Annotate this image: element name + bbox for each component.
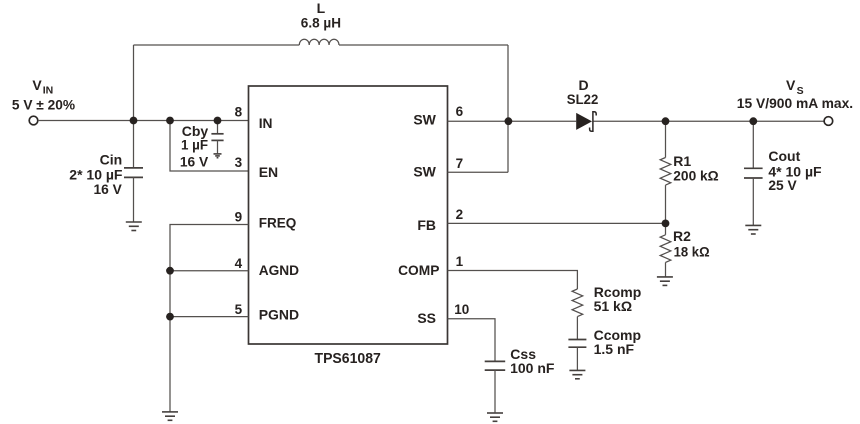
svg-text:7: 7 (456, 156, 464, 171)
ground (Cout) (745, 225, 761, 234)
wire riser to top rail (133, 45, 135, 121)
svg-text:EN: EN (259, 164, 278, 180)
svg-text:5 V ± 20%: 5 V ± 20% (12, 97, 76, 113)
svg-text:2: 2 (456, 207, 464, 222)
wire FB (448, 222, 666, 224)
resistor Rcomp (572, 289, 583, 340)
svg-text:10: 10 (454, 302, 469, 317)
wire diode to VS (594, 120, 825, 122)
label VS (786, 77, 804, 97)
svg-text:3: 3 (235, 155, 243, 170)
resistor R1 (660, 121, 671, 223)
label VIN (32, 77, 53, 97)
svg-text:16 V: 16 V (94, 181, 123, 197)
node PGND junction (166, 313, 174, 321)
svg-text:8: 8 (235, 105, 243, 120)
svg-text:15 V/900 mA max.: 15 V/900 mA max. (737, 95, 853, 111)
wire VIN to IC pin IN (38, 120, 249, 122)
wire FREQ (170, 225, 249, 412)
svg-text:9: 9 (235, 209, 243, 224)
capacitor Cout (744, 121, 763, 225)
node AGND junction (166, 267, 174, 275)
svg-text:SW: SW (413, 111, 436, 127)
svg-text:SW: SW (413, 164, 436, 180)
svg-text:51 kΩ: 51 kΩ (594, 298, 632, 314)
capacitor Cby (211, 121, 223, 154)
svg-text:TPS61087: TPS61087 (315, 350, 381, 367)
svg-text:R2: R2 (673, 228, 691, 244)
wire SW6 stub (448, 120, 509, 122)
node FB junction (662, 220, 670, 228)
svg-text:1: 1 (456, 254, 464, 269)
terminal VIN (29, 116, 38, 125)
ground (R2) (657, 277, 673, 286)
node SW junction (505, 117, 513, 125)
svg-text:16 V: 16 V (180, 153, 209, 169)
svg-text:1 µF: 1 µF (181, 137, 208, 153)
capacitor Cin (124, 121, 143, 223)
wire SW7 stub (448, 171, 509, 173)
wire PGND (170, 316, 249, 318)
ground (AGND/PGND) (162, 412, 178, 420)
wire EN jog (170, 121, 249, 172)
wire top rail right (339, 44, 508, 46)
ground (Ccomp) (569, 370, 585, 378)
node Cout junction (749, 117, 757, 125)
svg-text:18 kΩ: 18 kΩ (674, 244, 710, 260)
node Cby junction (214, 117, 222, 125)
ground (Css) (487, 413, 503, 421)
IC U1 TPS61087 (249, 86, 448, 344)
svg-text:25 V: 25 V (768, 177, 797, 193)
svg-text:6.8 µH: 6.8 µH (301, 14, 341, 30)
svg-text:V: V (786, 77, 796, 93)
wire AGND (170, 270, 249, 272)
svg-text:V: V (32, 77, 42, 93)
node R1 junction (662, 117, 670, 125)
wire SW to diode (508, 120, 576, 122)
wire top rail left (134, 44, 300, 46)
svg-text:IN: IN (43, 85, 54, 97)
svg-text:1.5 nF: 1.5 nF (594, 341, 635, 357)
terminal VS (824, 117, 833, 126)
svg-text:PGND: PGND (259, 307, 299, 323)
svg-text:AGND: AGND (259, 262, 299, 278)
node input junction (130, 117, 138, 125)
capacitor Css (485, 361, 506, 412)
svg-text:4: 4 (235, 256, 243, 271)
diode D SL22 (576, 112, 596, 132)
node EN junction (166, 117, 174, 125)
svg-text:FB: FB (417, 217, 436, 233)
wire COMP (448, 271, 578, 290)
ground (Cin) (126, 222, 142, 231)
svg-text:100 nF: 100 nF (510, 360, 555, 376)
ground (Cby, small) (214, 154, 222, 158)
svg-text:SS: SS (417, 310, 436, 326)
resistor R2 (660, 223, 671, 277)
svg-text:Cin: Cin (100, 152, 123, 168)
svg-text:6: 6 (456, 104, 464, 119)
svg-text:2* 10 µF: 2* 10 µF (69, 166, 123, 182)
svg-text:5: 5 (235, 302, 243, 317)
svg-text:IN: IN (259, 115, 273, 131)
wire SS (448, 319, 496, 362)
capacitor Ccomp (568, 340, 586, 371)
svg-text:Cout: Cout (768, 148, 800, 164)
svg-text:200 kΩ: 200 kΩ (673, 167, 718, 183)
svg-text:FREQ: FREQ (259, 215, 297, 231)
inductor L (299, 39, 339, 45)
svg-text:SL22: SL22 (567, 91, 599, 107)
wire riser SW (507, 45, 509, 172)
svg-text:COMP: COMP (398, 262, 439, 278)
